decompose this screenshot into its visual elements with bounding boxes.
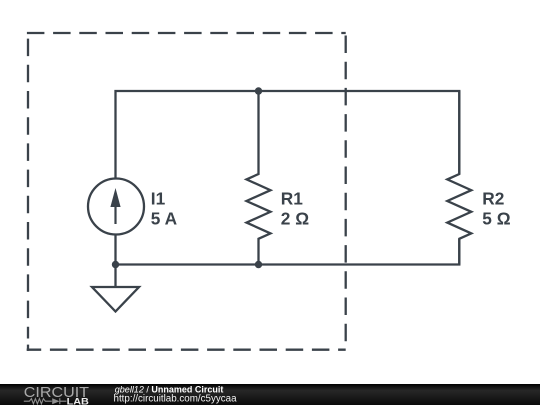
svg-text:R1: R1 (281, 189, 303, 209)
svg-text:R2: R2 (482, 189, 504, 209)
svg-text:5 Ω: 5 Ω (482, 209, 510, 229)
svg-text:LAB: LAB (67, 396, 90, 405)
svg-text:I1: I1 (151, 189, 166, 209)
svg-text:2 Ω: 2 Ω (281, 209, 309, 229)
svg-text:http://circuitlab.com/c5yycaa: http://circuitlab.com/c5yycaa (114, 393, 238, 404)
svg-text:5 A: 5 A (151, 209, 178, 229)
